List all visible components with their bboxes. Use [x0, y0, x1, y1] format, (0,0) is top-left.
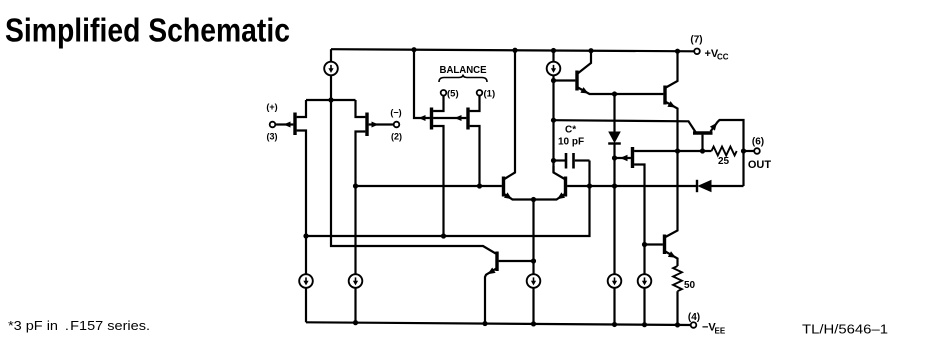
- node rail-I6 junction: [642, 322, 647, 327]
- node rail-Q6 junction: [512, 48, 517, 53]
- wire I4 to rail: [532, 287, 534, 323]
- svg-text:EE: EE: [715, 327, 726, 336]
- wire I2 down column: [552, 75, 554, 173]
- wire D2 anode lead: [712, 185, 744, 187]
- current source I5: [608, 274, 622, 288]
- node rail-I4 junction: [531, 321, 536, 326]
- label BALANCE: [440, 64, 487, 76]
- wire J1A gate lead: [275, 123, 293, 125]
- node rail-I5 junction: [612, 322, 617, 327]
- svg-text:(5): (5): [447, 89, 459, 100]
- label (7): [690, 35, 702, 46]
- svg-text:(3): (3): [267, 132, 278, 142]
- svg-text:*3 pF in . F157 series.: *3 pF in . F157 series.: [8, 318, 150, 333]
- transistor Q7 base bar: [564, 177, 567, 197]
- capacitor C1 left plate: [565, 153, 568, 169]
- wire I3A top lead: [305, 236, 307, 275]
- wire balance gate bias from rail: [414, 50, 430, 118]
- wire I2 top lead: [552, 50, 554, 62]
- svg-text:50: 50: [684, 280, 696, 291]
- wire to output terminal: [744, 150, 755, 152]
- wire Q1 collector: [577, 51, 591, 74]
- svg-text:(+): (+): [266, 102, 277, 112]
- current source I2: [547, 62, 561, 76]
- svg-text:TL/H/5646–1: TL/H/5646–1: [802, 323, 888, 337]
- label (4): [688, 312, 700, 323]
- label (5): [447, 89, 459, 100]
- transistor Q3 base bar: [693, 131, 713, 134]
- node C* bottom / line B top: [587, 183, 592, 188]
- wire tail to Q8 base: [331, 100, 496, 254]
- wire emitter node down: [532, 200, 534, 275]
- wire J3 source lead: [470, 126, 480, 186]
- arrow J4 gate: [620, 155, 628, 161]
- footnote *3 pF in LF157 series.: [8, 318, 150, 333]
- node Q8 collector junction: [531, 258, 536, 263]
- wire output down to D2: [742, 151, 744, 186]
- arrow Q8 emitter: [488, 268, 496, 275]
- node D1 anode junction: [612, 91, 617, 96]
- current source I1: [324, 62, 338, 76]
- wire I3B top lead: [354, 186, 356, 275]
- node rail-I2 junction: [551, 48, 556, 53]
- arrow Q2 emitter: [667, 101, 675, 107]
- wire -Vee bottom rail: [306, 322, 691, 325]
- capacitor C1 right plate: [572, 153, 575, 169]
- label (-): [390, 108, 401, 118]
- wire D1 cathode column: [613, 144, 615, 275]
- wire Q3 base lead: [701, 135, 703, 151]
- wire Q8 emitter: [485, 268, 497, 324]
- svg-text:Simplified Schematic: Simplified Schematic: [5, 12, 290, 49]
- svg-text:(2): (2): [391, 132, 402, 142]
- wire tail crossbar: [306, 99, 356, 101]
- node tail junction: [328, 97, 333, 102]
- node rail-R2 junction: [675, 322, 680, 327]
- wire I6 to rail: [643, 287, 645, 324]
- node J1A drain - line B: [303, 233, 308, 238]
- pin 3 noninverting input terminal: [270, 122, 276, 128]
- pin 5 balance terminal: [441, 90, 447, 96]
- arrow J1A gate (p-channel): [284, 122, 291, 128]
- node rail-Q8 junction: [482, 321, 487, 326]
- node J2 source on line B: [441, 233, 446, 238]
- node rail-balance junction: [411, 47, 416, 52]
- label 50: [684, 280, 696, 291]
- wire Q2 emitter: [665, 102, 678, 152]
- svg-text:(4): (4): [688, 312, 700, 323]
- node Q5 base junction: [642, 242, 647, 247]
- wire Q8 collector: [499, 260, 534, 262]
- wire Q7 collector: [554, 166, 566, 180]
- wire J2 drain to balance pin 5: [433, 96, 443, 111]
- pin 1 balance terminal: [477, 90, 483, 96]
- label C*: [565, 125, 576, 136]
- resistor R1 25ohm: [712, 147, 737, 156]
- svg-text:CC: CC: [717, 53, 729, 62]
- svg-text:(6): (6): [752, 137, 764, 148]
- wire J2 source lead: [433, 126, 443, 236]
- label 10 pF: [558, 137, 584, 148]
- label (6): [752, 137, 764, 148]
- wire I1 top lead: [330, 49, 332, 62]
- transistor Q8 base bar: [495, 252, 498, 272]
- current source I3A: [299, 274, 313, 288]
- arrow J1B gate (p-channel): [372, 122, 379, 128]
- wire line A (J1B drain to Q6 base): [356, 185, 502, 187]
- wire J1A drain lead: [297, 131, 306, 237]
- wire Q5 base lead: [645, 243, 663, 245]
- transistor J2 channel bar: [430, 108, 433, 130]
- svg-text:(1): (1): [484, 89, 496, 100]
- wire C* node to Q3 collector: [554, 120, 696, 132]
- node Q2 emitter / Q3 base junction: [675, 148, 680, 153]
- transistor Q5 base bar: [663, 235, 666, 255]
- node J3 source on line A: [477, 183, 482, 188]
- node second-stage emitter junction: [531, 197, 536, 202]
- wire Q5 collector: [665, 151, 678, 238]
- node output junction: [741, 148, 746, 153]
- wire Q5 emitter: [665, 251, 678, 266]
- arrow Q7 emitter: [557, 192, 565, 199]
- wire J4 drain (output line): [634, 150, 711, 152]
- resistor R2 50ohm: [673, 266, 682, 291]
- node Q1 base junction: [551, 78, 556, 83]
- pin 7 +Vcc terminal: [694, 49, 700, 55]
- wire D2 cathode lead: [616, 185, 697, 187]
- transistor J3 channel bar: [466, 108, 469, 130]
- brace balance: [439, 75, 487, 83]
- arrow J2 gate: [419, 115, 426, 121]
- wire J1B source lead: [356, 100, 366, 117]
- wire Q7 emitter: [534, 194, 566, 200]
- node C* top junction: [551, 118, 556, 123]
- current source I3B: [349, 274, 363, 288]
- node rail-I3B junction: [353, 320, 358, 325]
- svg-text:25: 25: [718, 156, 730, 167]
- pin 6 output terminal: [754, 148, 760, 154]
- arrow J3 gate: [455, 115, 462, 121]
- transistor J4 channel bar: [631, 147, 634, 168]
- node J1B drain - line A: [353, 183, 358, 188]
- pin 4 -Vee terminal: [691, 322, 697, 328]
- svg-text:C*: C*: [565, 125, 576, 136]
- wire Q1 emitter: [577, 87, 663, 94]
- node resistor R1 left junction: [700, 148, 705, 153]
- arrow Q3 emitter: [710, 123, 717, 131]
- node J4 gate junction: [612, 155, 617, 160]
- svg-text:(7): (7): [690, 35, 702, 46]
- label -Vee: [702, 322, 726, 336]
- wire I1 bottom lead: [330, 75, 332, 100]
- node rail-Q1 junction: [588, 48, 593, 53]
- svg-text:OUT: OUT: [748, 159, 772, 171]
- transistor Q1 base bar: [575, 71, 578, 91]
- arrow Q5 emitter: [668, 251, 676, 257]
- node C* left plate junction: [551, 158, 556, 163]
- label OUT: [748, 159, 772, 171]
- node rail-Q2 junction: [675, 49, 680, 54]
- node Q7 base line meets D1 column: [612, 183, 617, 188]
- transistor J1A channel bar: [293, 113, 296, 136]
- wire J4 gate lead: [615, 157, 631, 159]
- label (3): [267, 132, 278, 142]
- wire Q2 collector: [665, 51, 678, 88]
- arrow Q6 emitter: [504, 192, 512, 199]
- label 25: [718, 156, 730, 167]
- wire I3A to rail: [305, 287, 307, 322]
- diode D2: [697, 180, 712, 192]
- wire J3 drain to balance pin 1: [470, 96, 480, 111]
- transistor Q6 base bar: [502, 177, 505, 197]
- svg-text:BALANCE: BALANCE: [440, 64, 487, 76]
- wire +Vcc top rail: [331, 49, 694, 51]
- wire Q7 base line: [567, 185, 614, 187]
- docnum TL/H/5646-1: [802, 323, 888, 337]
- wire J4 source lead: [634, 165, 644, 275]
- transistor J1B channel bar: [365, 113, 368, 137]
- wire Q6 collector to rail: [504, 50, 516, 179]
- wire J1B gate lead: [369, 123, 394, 125]
- label (2): [391, 132, 402, 142]
- pin 2 inverting input terminal: [394, 122, 400, 128]
- wire C1 left lead: [554, 159, 566, 161]
- wire Q6 emitter: [504, 194, 534, 200]
- wire Q1 base lead: [554, 79, 576, 81]
- wire R2 to rail: [676, 291, 678, 325]
- label (1): [484, 89, 496, 100]
- transistor Q2 base bar: [663, 86, 666, 105]
- svg-text:10 pF: 10 pF: [558, 137, 584, 148]
- label +Vcc: [705, 48, 729, 62]
- wire J1A source lead: [297, 100, 306, 117]
- title Simplified Schematic: [5, 12, 290, 49]
- current source I6: [638, 274, 652, 288]
- current source I4: [527, 274, 541, 288]
- wire I5 to rail: [613, 287, 615, 324]
- wire J1B drain lead: [356, 132, 366, 187]
- wire C1 right lead: [575, 159, 590, 161]
- wire I3B to rail: [354, 287, 356, 322]
- wire J2-J3 gate link: [433, 117, 466, 119]
- label (+): [266, 102, 277, 112]
- wire D1 anode lead: [613, 94, 615, 132]
- svg-text:(−): (−): [390, 108, 401, 118]
- arrow Q1 emitter: [580, 87, 588, 93]
- diode D1: [608, 132, 621, 144]
- wire line B (J1A drain to Q7 base): [306, 161, 590, 237]
- wire Q3 emitter: [711, 120, 744, 151]
